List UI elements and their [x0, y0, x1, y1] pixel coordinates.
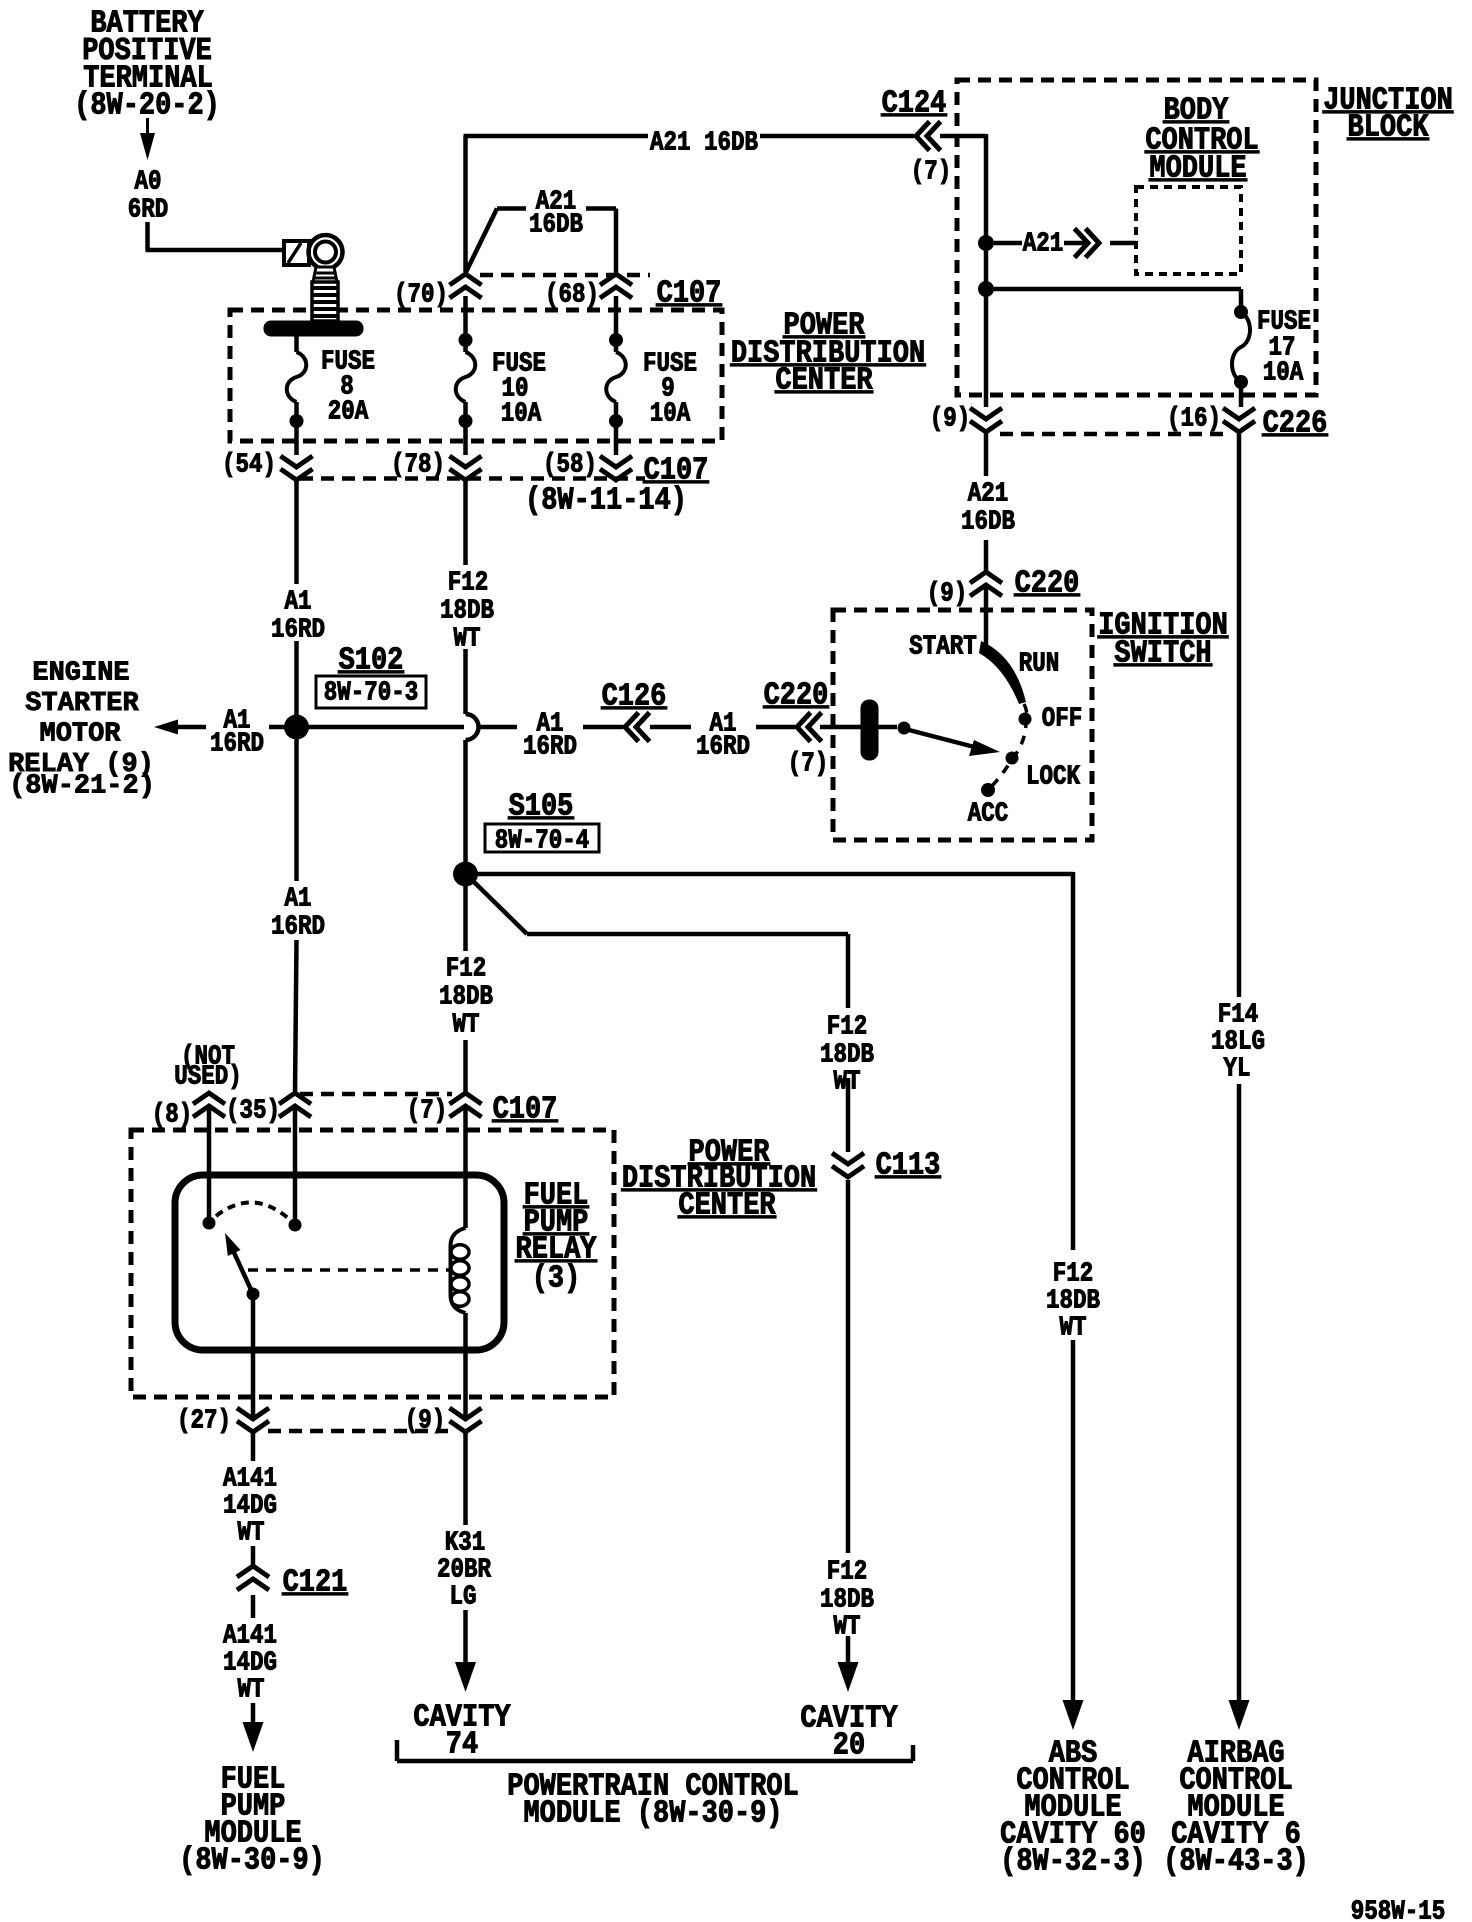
svg-text:(68): (68) [545, 280, 599, 310]
svg-text:18DB: 18DB [1046, 1286, 1100, 1316]
svg-text:F14: F14 [1218, 1000, 1259, 1030]
svg-text:(7): (7) [788, 749, 829, 779]
svg-text:10A: 10A [650, 399, 691, 429]
svg-text:16RD: 16RD [271, 615, 325, 645]
svg-text:WT: WT [452, 1010, 479, 1040]
svg-text:18DB: 18DB [820, 1585, 874, 1615]
svg-text:START: START [909, 632, 977, 662]
svg-text:OFF: OFF [1042, 704, 1083, 734]
svg-text:(58): (58) [543, 450, 597, 480]
svg-text:RUN: RUN [1019, 649, 1060, 679]
svg-text:16RD: 16RD [210, 729, 264, 759]
svg-text:A1: A1 [284, 587, 311, 617]
svg-text:(8W-43-3): (8W-43-3) [1163, 1844, 1309, 1879]
svg-text:(8W-32-3): (8W-32-3) [1000, 1844, 1146, 1879]
svg-text:(27): (27) [177, 1406, 231, 1436]
svg-text:10A: 10A [501, 399, 542, 429]
svg-text:14DG: 14DG [223, 1491, 277, 1521]
svg-text:WT: WT [1059, 1313, 1086, 1343]
svg-text:(7): (7) [911, 157, 952, 187]
svg-text:20: 20 [833, 1728, 865, 1763]
svg-text:MODULE (8W-30-9): MODULE (8W-30-9) [523, 1796, 782, 1831]
svg-text:6RD: 6RD [128, 195, 169, 225]
svg-text:LG: LG [449, 1582, 476, 1612]
svg-text:18DB: 18DB [440, 596, 494, 626]
svg-text:(70): (70) [394, 280, 448, 310]
svg-text:F12: F12 [446, 954, 487, 984]
svg-text:16DB: 16DB [961, 507, 1015, 537]
svg-text:K31: K31 [445, 1528, 486, 1558]
svg-text:(8W-20-2): (8W-20-2) [74, 88, 220, 123]
svg-text:(3): (3) [532, 1261, 581, 1296]
svg-text:18LG: 18LG [1211, 1027, 1265, 1057]
svg-text:18DB: 18DB [439, 982, 493, 1012]
svg-text:A141: A141 [223, 1621, 277, 1651]
svg-text:A21: A21 [1023, 229, 1064, 259]
svg-text:958W-15: 958W-15 [1351, 1897, 1445, 1922]
svg-text:WT: WT [237, 1675, 264, 1705]
svg-text:16RD: 16RD [523, 732, 577, 762]
svg-text:A21: A21 [968, 479, 1009, 509]
svg-text:YL: YL [1223, 1054, 1250, 1084]
svg-text:(9): (9) [930, 404, 971, 434]
svg-text:20BR: 20BR [437, 1555, 491, 1585]
svg-text:F12: F12 [827, 1557, 868, 1587]
svg-text:F12: F12 [827, 1012, 868, 1042]
svg-text:F12: F12 [1053, 1259, 1094, 1289]
svg-text:16RD: 16RD [271, 912, 325, 942]
svg-text:A0: A0 [134, 167, 161, 197]
svg-text:20A: 20A [328, 397, 369, 427]
svg-text:16DB: 16DB [529, 210, 583, 240]
svg-text:(8): (8) [152, 1100, 193, 1130]
svg-text:16RD: 16RD [696, 732, 750, 762]
svg-text:10A: 10A [1263, 358, 1304, 388]
svg-text:(35): (35) [226, 1096, 280, 1126]
svg-text:A141: A141 [223, 1464, 277, 1494]
svg-text:8W-70-3: 8W-70-3 [324, 678, 418, 708]
svg-text:14DG: 14DG [223, 1648, 277, 1678]
svg-text:(7): (7) [407, 1096, 448, 1126]
svg-text:F12: F12 [448, 568, 489, 598]
svg-text:18DB: 18DB [820, 1040, 874, 1070]
svg-text:8W-70-4: 8W-70-4 [495, 826, 590, 856]
svg-text:LOCK: LOCK [1026, 762, 1080, 792]
svg-text:(8W-11-14): (8W-11-14) [525, 483, 687, 518]
svg-text:(9): (9) [927, 579, 968, 609]
svg-text:USED): USED) [174, 1062, 241, 1092]
svg-text:ACC: ACC [968, 799, 1009, 829]
svg-text:WT: WT [453, 624, 480, 654]
svg-text:A21 16DB: A21 16DB [650, 128, 758, 158]
svg-text:ENGINE: ENGINE [32, 659, 129, 689]
svg-text:74: 74 [446, 1727, 478, 1762]
svg-text:(9): (9) [405, 1406, 446, 1436]
svg-text:(8W-21-2): (8W-21-2) [9, 772, 155, 802]
svg-text:STARTER: STARTER [25, 689, 139, 719]
svg-text:WT: WT [237, 1518, 264, 1548]
svg-text:A1: A1 [284, 884, 311, 914]
svg-text:(16): (16) [1167, 404, 1221, 434]
svg-text:(54): (54) [222, 450, 276, 480]
svg-text:(8W-30-9): (8W-30-9) [179, 1843, 325, 1878]
svg-text:MOTOR: MOTOR [39, 720, 121, 750]
svg-text:(78): (78) [391, 450, 445, 480]
